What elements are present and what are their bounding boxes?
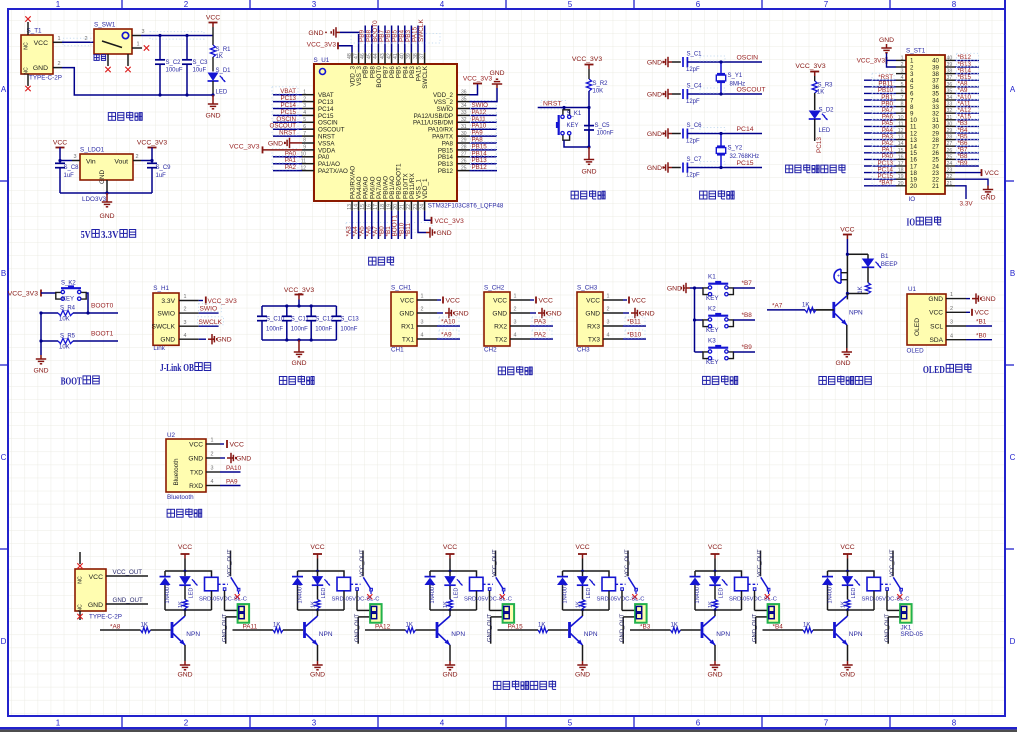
svg-text:RX1: RX1 (401, 323, 414, 330)
svg-text:GND_OUT: GND_OUT (752, 613, 758, 642)
svg-text:S_SW1: S_SW1 (94, 22, 116, 29)
svg-text:6: 6 (696, 719, 701, 728)
svg-text:1: 1 (421, 294, 424, 300)
svg-text:4: 4 (421, 333, 424, 339)
svg-text:29: 29 (947, 128, 953, 134)
svg-text:1K: 1K (671, 622, 678, 628)
svg-text:SRD-05: SRD-05 (901, 631, 924, 638)
svg-text:OLED: OLED (907, 348, 925, 355)
svg-text:VCC: VCC (400, 297, 414, 304)
svg-text:3.3V: 3.3V (101, 230, 119, 241)
svg-text:LED: LED (188, 588, 194, 599)
svg-text:SRD-05VDC-SL-C: SRD-05VDC-SL-C (729, 597, 777, 603)
svg-text:39: 39 (947, 62, 953, 68)
svg-text:1K: 1K (538, 622, 545, 628)
svg-text:6: 6 (901, 88, 904, 94)
svg-text:*B4: *B4 (773, 624, 784, 631)
svg-text:1uF: 1uF (64, 173, 75, 179)
svg-text:GND: GND (640, 310, 655, 317)
svg-text:34: 34 (947, 95, 953, 101)
svg-text:2: 2 (135, 154, 138, 160)
svg-text:1: 1 (950, 292, 953, 298)
svg-text:VCC: VCC (493, 297, 507, 304)
svg-text:IO: IO (909, 196, 916, 203)
svg-text:GND: GND (647, 131, 662, 138)
svg-text:1: 1 (56, 719, 61, 728)
svg-text:14: 14 (353, 204, 359, 210)
svg-text:TX3: TX3 (588, 336, 600, 343)
svg-text:2: 2 (303, 96, 306, 102)
svg-text:GND: GND (585, 310, 600, 317)
svg-text:S_LDO1: S_LDO1 (80, 147, 105, 154)
svg-text:GND: GND (236, 455, 251, 462)
svg-text:SRD-05VDC-SL-C: SRD-05VDC-SL-C (862, 597, 910, 603)
svg-text:KEY: KEY (567, 123, 579, 129)
svg-text:1N4007: 1N4007 (695, 584, 701, 604)
svg-text:9: 9 (303, 145, 306, 151)
svg-text:VCC: VCC (446, 297, 460, 304)
svg-text:S_K2: S_K2 (61, 281, 76, 287)
svg-text:23: 23 (413, 204, 419, 210)
svg-text:1N4007: 1N4007 (297, 584, 303, 604)
svg-text:GND: GND (840, 672, 855, 679)
svg-text:VCC: VCC (632, 297, 646, 304)
svg-text:GND: GND (308, 30, 323, 37)
svg-text:GND: GND (581, 169, 596, 176)
svg-text:PA15: PA15 (508, 624, 524, 631)
svg-text:C: C (1010, 453, 1016, 462)
svg-text:*B9: *B9 (958, 160, 969, 167)
svg-text:12pF: 12pF (686, 138, 700, 144)
svg-text:SRD-05VDC-SL-C: SRD-05VDC-SL-C (199, 597, 247, 603)
svg-text:GND_OUT: GND_OUT (113, 597, 143, 604)
svg-text:32: 32 (461, 117, 467, 123)
svg-text:BOOT1: BOOT1 (91, 331, 114, 338)
svg-text:LED: LED (216, 90, 228, 96)
svg-text:PA12: PA12 (375, 624, 391, 631)
svg-text:12: 12 (898, 128, 904, 134)
svg-text:3: 3 (950, 320, 953, 326)
svg-text:J-Link OB: J-Link OB (160, 363, 194, 374)
svg-text:16: 16 (898, 154, 904, 160)
svg-text:*A8: *A8 (110, 624, 121, 631)
svg-text:C: C (1, 453, 7, 462)
svg-text:SRD-05VDC-SL-C: SRD-05VDC-SL-C (597, 597, 645, 603)
svg-text:TXD: TXD (190, 469, 203, 476)
svg-text:TYPE-C-2P: TYPE-C-2P (29, 75, 62, 82)
svg-text:*B7: *B7 (742, 280, 753, 287)
svg-text:GND: GND (33, 368, 48, 375)
svg-text:CH2: CH2 (484, 347, 497, 354)
svg-text:38: 38 (413, 53, 419, 59)
svg-text:S_C4: S_C4 (687, 83, 703, 89)
svg-text:NC: NC (78, 576, 84, 584)
svg-text:VCC_3V3: VCC_3V3 (463, 76, 493, 83)
svg-text:*B8: *B8 (742, 312, 753, 319)
svg-text:GND: GND (205, 113, 220, 120)
svg-text:S_C3: S_C3 (193, 60, 209, 66)
svg-text:VCC: VCC (539, 297, 553, 304)
svg-text:PC14: PC14 (737, 126, 754, 133)
svg-text:1K: 1K (273, 622, 280, 628)
svg-text:GND: GND (647, 165, 662, 172)
svg-text:22: 22 (947, 174, 953, 180)
svg-text:20: 20 (910, 183, 917, 190)
svg-text:PA11: PA11 (243, 624, 258, 631)
svg-text:39: 39 (406, 53, 412, 59)
svg-text:NRST: NRST (279, 130, 296, 137)
svg-text:NPN: NPN (716, 631, 730, 638)
svg-text:GND: GND (492, 310, 507, 317)
svg-text:*BAT: *BAT (879, 180, 893, 187)
svg-text:Vin: Vin (86, 159, 96, 166)
svg-text:GND: GND (981, 296, 996, 303)
svg-text:8MHz: 8MHz (730, 82, 746, 88)
svg-text:3: 3 (141, 29, 144, 35)
svg-text:GND: GND (647, 59, 662, 66)
svg-text:LED: LED (586, 588, 592, 599)
svg-text:LED: LED (321, 588, 327, 599)
svg-text:17: 17 (373, 204, 379, 210)
svg-text:8: 8 (952, 0, 957, 9)
svg-text:18: 18 (380, 204, 386, 210)
svg-text:VCC: VCC (178, 544, 192, 551)
svg-text:3: 3 (607, 320, 610, 326)
svg-text:Bluetooth: Bluetooth (173, 458, 180, 485)
svg-text:GND: GND (310, 672, 325, 679)
svg-text:1N4007: 1N4007 (562, 584, 568, 604)
svg-text:VCC: VCC (34, 40, 48, 47)
svg-text:8: 8 (303, 138, 306, 144)
svg-text:23: 23 (947, 168, 953, 174)
svg-text:Bluetooth: Bluetooth (167, 494, 194, 501)
svg-text:7: 7 (824, 0, 829, 9)
svg-text:GND: GND (160, 337, 175, 344)
svg-text:GND: GND (33, 65, 48, 72)
svg-text:15: 15 (898, 148, 904, 154)
svg-text:GND: GND (667, 286, 682, 293)
svg-text:4: 4 (440, 719, 445, 728)
svg-text:40: 40 (947, 55, 953, 61)
svg-text:100nF: 100nF (315, 327, 332, 333)
svg-text:36: 36 (947, 82, 953, 88)
svg-text:VCC: VCC (206, 15, 220, 22)
svg-text:1: 1 (56, 0, 61, 9)
svg-text:1: 1 (184, 294, 187, 300)
svg-text:10: 10 (898, 115, 904, 121)
svg-text:GND: GND (928, 296, 943, 303)
svg-text:7: 7 (303, 131, 306, 137)
svg-text:2: 2 (184, 307, 187, 313)
svg-text:100nF: 100nF (597, 131, 614, 137)
svg-text:VCC: VCC (310, 544, 324, 551)
svg-text:1: 1 (211, 438, 214, 444)
svg-text:GND: GND (442, 672, 457, 679)
svg-text:1K: 1K (803, 622, 810, 628)
svg-text:GND: GND (99, 170, 106, 184)
svg-text:4: 4 (514, 333, 517, 339)
svg-text:2: 2 (184, 0, 189, 9)
svg-text:2: 2 (184, 719, 189, 728)
svg-text:VCC_3V3: VCC_3V3 (137, 140, 167, 147)
svg-text:*B10: *B10 (627, 332, 642, 339)
svg-text:S_U1: S_U1 (314, 57, 330, 64)
svg-text:4: 4 (303, 110, 306, 116)
svg-text:7: 7 (901, 95, 904, 101)
svg-text:TX1: TX1 (402, 336, 414, 343)
svg-text:S_Y2: S_Y2 (728, 146, 743, 152)
svg-text:6: 6 (696, 0, 701, 9)
svg-text:SWCLK: SWCLK (152, 324, 176, 331)
svg-text:13: 13 (347, 204, 353, 210)
svg-text:2: 2 (514, 307, 517, 313)
svg-text:GND: GND (291, 360, 306, 367)
svg-text:1K: 1K (141, 622, 148, 628)
svg-text:LED: LED (453, 588, 459, 599)
svg-text:S_C1: S_C1 (687, 51, 703, 57)
svg-text:29: 29 (461, 138, 467, 144)
svg-text:GND_OUT: GND_OUT (885, 613, 891, 642)
svg-text:PA3: PA3 (534, 319, 546, 326)
svg-text:34: 34 (461, 103, 467, 109)
svg-text:45: 45 (367, 53, 373, 59)
svg-text:S_R2: S_R2 (593, 81, 609, 87)
svg-text:S_CH2: S_CH2 (484, 285, 505, 292)
svg-text:Vout: Vout (114, 159, 128, 166)
svg-text:VCC: VCC (840, 544, 854, 551)
svg-text:10uF: 10uF (193, 68, 207, 74)
svg-text:VCC_3V3: VCC_3V3 (307, 42, 337, 49)
svg-text:5V: 5V (81, 230, 91, 241)
svg-text:4: 4 (211, 479, 214, 485)
svg-text:K2: K2 (708, 306, 716, 313)
svg-text:S_C5: S_C5 (595, 123, 611, 129)
svg-text:41: 41 (393, 53, 399, 59)
svg-text:OSCOUT: OSCOUT (737, 87, 766, 94)
svg-text:VCC_3V3: VCC_3V3 (208, 298, 238, 305)
svg-text:43: 43 (380, 53, 386, 59)
svg-text:OLED: OLED (923, 365, 945, 376)
svg-text:S_D2: S_D2 (819, 108, 835, 114)
svg-text:5: 5 (568, 719, 573, 728)
svg-text:4: 4 (440, 0, 445, 9)
svg-text:36: 36 (461, 89, 467, 95)
svg-text:S_C12: S_C12 (315, 317, 334, 323)
svg-text:2: 2 (950, 306, 953, 312)
svg-text:25: 25 (461, 165, 467, 171)
svg-text:OLED: OLED (914, 318, 921, 336)
svg-text:S_C11: S_C11 (291, 317, 310, 323)
svg-text:1: 1 (303, 89, 306, 95)
svg-text:1N4007: 1N4007 (827, 584, 833, 604)
svg-text:BOOT0: BOOT0 (91, 303, 114, 310)
svg-text:3: 3 (211, 466, 214, 472)
svg-text:2: 2 (901, 62, 904, 68)
svg-text:1K: 1K (858, 286, 864, 293)
svg-text:VCC_OUT: VCC_OUT (757, 549, 763, 577)
svg-text:D: D (1, 637, 7, 646)
svg-text:GND: GND (707, 672, 722, 679)
svg-text:GND_OUT: GND_OUT (620, 613, 626, 642)
svg-text:3: 3 (421, 320, 424, 326)
svg-text:100nF: 100nF (291, 327, 308, 333)
svg-text:S_ST1: S_ST1 (906, 48, 926, 55)
svg-text:STM32F103C8T6_LQFP48: STM32F103C8T6_LQFP48 (428, 203, 504, 210)
svg-text:27: 27 (947, 141, 953, 147)
svg-text:LED: LED (718, 588, 724, 599)
svg-text:VCC_3V3: VCC_3V3 (284, 287, 314, 294)
svg-text:KEY: KEY (706, 295, 719, 302)
svg-text:1: 1 (136, 42, 139, 48)
svg-text:S_Y1: S_Y1 (728, 73, 743, 79)
svg-text:NC: NC (78, 604, 84, 612)
svg-text:VCC_OUT: VCC_OUT (227, 549, 233, 577)
svg-text:GND: GND (575, 672, 590, 679)
svg-text:15: 15 (360, 204, 366, 210)
svg-text:KEY: KEY (706, 327, 719, 334)
svg-text:GND_OUT: GND_OUT (355, 613, 361, 642)
svg-text:35: 35 (461, 96, 467, 102)
svg-text:33: 33 (947, 102, 953, 108)
svg-text:*B1: *B1 (976, 319, 987, 326)
svg-text:14: 14 (898, 141, 904, 147)
svg-text:2: 2 (421, 307, 424, 313)
svg-text:46: 46 (360, 53, 366, 59)
svg-text:VCC_3V3: VCC_3V3 (572, 56, 602, 63)
svg-text:VDD_1: VDD_1 (422, 178, 429, 199)
svg-text:GND_OUT: GND_OUT (222, 613, 228, 642)
svg-text:GND_OUT: GND_OUT (487, 613, 493, 642)
svg-text:CH3: CH3 (577, 347, 590, 354)
svg-text:2: 2 (211, 452, 214, 458)
svg-text:10K: 10K (59, 345, 70, 351)
svg-text:100nF: 100nF (266, 327, 283, 333)
svg-text:*B11: *B11 (627, 319, 641, 326)
svg-text:24: 24 (419, 204, 425, 210)
svg-text:9: 9 (901, 108, 904, 114)
svg-text:VCC: VCC (230, 441, 244, 448)
svg-text:NPN: NPN (849, 310, 863, 317)
svg-text:GND: GND (99, 213, 114, 220)
svg-text:PC13: PC13 (816, 137, 823, 153)
svg-text:S_K1: S_K1 (567, 111, 582, 117)
svg-text:21: 21 (932, 183, 939, 190)
svg-text:37: 37 (419, 53, 425, 59)
svg-text:12pF: 12pF (686, 172, 700, 178)
svg-text:SRD-05VDC-SL-C: SRD-05VDC-SL-C (332, 597, 380, 603)
svg-text:BOOT: BOOT (61, 376, 82, 387)
svg-text:TX2: TX2 (495, 336, 507, 343)
svg-text:6: 6 (303, 124, 306, 130)
svg-text:+: + (837, 274, 840, 280)
svg-text:5: 5 (303, 117, 306, 123)
svg-text:GND: GND (437, 230, 452, 237)
svg-text:1: 1 (607, 294, 610, 300)
svg-text:S_C8: S_C8 (64, 165, 80, 171)
svg-text:38: 38 (947, 69, 953, 75)
svg-text:VCC_OUT: VCC_OUT (360, 549, 366, 577)
svg-text:1: 1 (514, 294, 517, 300)
svg-text:S_R3: S_R3 (818, 83, 834, 89)
svg-text:5: 5 (901, 82, 904, 88)
svg-text:GND: GND (489, 70, 504, 77)
svg-text:12pF: 12pF (686, 99, 700, 105)
svg-text:1uF: 1uF (156, 173, 167, 179)
svg-text:PA10: PA10 (226, 465, 242, 472)
svg-text:1K: 1K (216, 54, 223, 60)
svg-text:10K: 10K (59, 317, 70, 323)
svg-text:VCC: VCC (985, 170, 999, 177)
svg-text:48: 48 (347, 53, 353, 59)
svg-text:K1: K1 (708, 274, 716, 281)
svg-text:PA2TX/AO: PA2TX/AO (318, 168, 348, 175)
svg-text:SDA: SDA (929, 337, 943, 344)
svg-text:3: 3 (73, 154, 76, 160)
svg-text:VCC: VCC (975, 310, 989, 317)
svg-text:VCC_3V3: VCC_3V3 (229, 144, 259, 151)
svg-text:4: 4 (184, 333, 187, 339)
svg-text:VCC: VCC (575, 544, 589, 551)
svg-text:1: 1 (57, 36, 60, 42)
svg-text:LED: LED (851, 588, 857, 599)
svg-text:GND: GND (980, 195, 995, 202)
svg-text:GND: GND (217, 337, 232, 344)
svg-text:GND: GND (547, 310, 562, 317)
svg-text:*A7: *A7 (772, 303, 783, 310)
svg-text:21: 21 (400, 204, 406, 210)
svg-text:VCC: VCC (929, 310, 943, 317)
svg-text:NC: NC (24, 42, 30, 50)
svg-text:KEY: KEY (62, 297, 74, 303)
svg-text:13: 13 (898, 135, 904, 141)
svg-text:PA2: PA2 (534, 332, 546, 339)
svg-text:10K: 10K (593, 89, 604, 95)
svg-text:IO: IO (907, 218, 916, 229)
svg-text:VCC_3V3: VCC_3V3 (435, 218, 465, 225)
svg-text:17: 17 (898, 161, 904, 167)
svg-text:GND: GND (835, 360, 850, 367)
svg-text:32: 32 (947, 108, 953, 114)
svg-text:44: 44 (373, 53, 379, 59)
svg-text:U2: U2 (167, 432, 176, 439)
svg-text:GND: GND (879, 37, 894, 44)
svg-text:7: 7 (824, 719, 829, 728)
svg-text:5: 5 (568, 0, 573, 9)
svg-text:*A10: *A10 (441, 319, 456, 326)
svg-text:3: 3 (184, 320, 187, 326)
svg-text:32.768KHz: 32.768KHz (730, 154, 760, 160)
svg-text:RXD: RXD (189, 483, 203, 490)
svg-text:VCC: VCC (89, 574, 103, 581)
svg-text:VCC: VCC (840, 227, 854, 234)
svg-text:GND: GND (268, 140, 283, 147)
svg-text:GND: GND (454, 310, 469, 317)
svg-text:3: 3 (303, 103, 306, 109)
svg-text:D: D (1010, 637, 1016, 646)
svg-text:40: 40 (400, 53, 406, 59)
svg-text:A: A (1, 85, 7, 94)
svg-text:30: 30 (461, 131, 467, 137)
svg-text:4: 4 (607, 333, 610, 339)
svg-text:1N4007: 1N4007 (165, 584, 171, 604)
svg-text:RX3: RX3 (587, 323, 600, 330)
svg-text:S_C6: S_C6 (687, 123, 703, 129)
svg-text:12pF: 12pF (686, 67, 700, 73)
svg-text:1K: 1K (802, 303, 809, 309)
svg-text:4: 4 (901, 75, 904, 81)
svg-text:S_CH3: S_CH3 (577, 285, 598, 292)
svg-text:OSCIN: OSCIN (737, 55, 759, 62)
